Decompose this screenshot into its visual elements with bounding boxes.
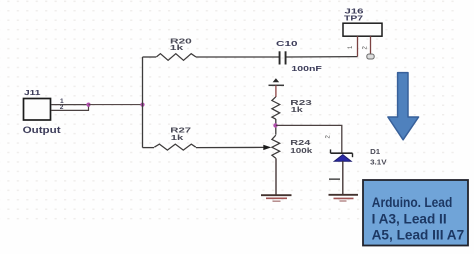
wire J11 pin1 [51,104,89,106]
wire R24 to ground [275,158,277,194]
connector J11 [23,88,61,135]
svg-text:Output: Output [23,125,61,135]
svg-text:D1: D1 [370,147,380,156]
svg-text:1k: 1k [170,43,185,52]
J16 pin 2 wire [370,36,372,53]
resistor R23 [272,97,312,119]
test point pad TP7 [367,54,374,59]
wire R27 to R24 wiper [196,146,264,148]
wire vertical bus junction to R20/R27 [142,57,144,148]
node main junction A [140,103,144,107]
wire junction B to D1 [276,125,342,153]
svg-text:3.1V: 3.1V [370,158,387,167]
resistor R27 [154,126,196,150]
node junction B [273,123,277,127]
resistor R20 [156,36,196,60]
connector J16 / TP7 [343,6,382,36]
wire D1 to ground [342,161,344,194]
R24 wiper arrow [263,145,271,150]
svg-text:C10: C10 [276,39,298,48]
J16 pin 1 wire [357,36,359,56]
svg-text:I A3, Lead II: I A3, Lead II [372,211,447,227]
node junction at J11 pins [86,103,90,107]
wire to R20 [143,56,157,58]
ground under R24 [261,195,292,201]
wire J11 pin2 [51,105,89,111]
wire R23 to junction node B [275,119,277,135]
power symbol at R23 top [269,78,285,97]
wire junction to R27 [143,147,155,149]
svg-text:Arduino. Lead: Arduino. Lead [372,194,453,210]
wire J11 to main junction [89,104,143,106]
wire R20 to C10 [196,56,279,58]
capacitor C10 [276,39,323,73]
annotation blue arrow [388,73,419,140]
svg-text:1k: 1k [291,105,304,114]
svg-text:100nF: 100nF [291,64,322,73]
D1 pin 1 number [329,178,340,180]
svg-text:J11: J11 [24,88,41,97]
svg-text:TP7: TP7 [344,14,363,23]
svg-text:100k: 100k [290,146,313,155]
svg-text:A5, Lead III A7: A5, Lead III A7 [372,227,465,243]
svg-text:1k: 1k [171,133,185,142]
wire C10 to J16 [287,56,358,58]
ground under D1 [329,195,359,201]
annotation text box [363,180,468,246]
zener diode D1 [331,147,387,167]
potentiometer R24 [272,135,314,158]
